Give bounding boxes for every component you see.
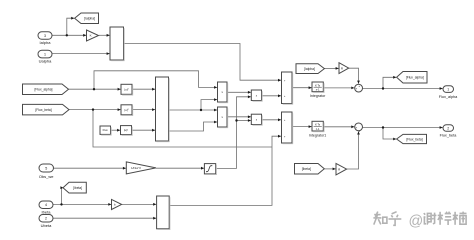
svg-text:1/Flux^2: 1/Flux^2 [131, 166, 141, 170]
shadow flux [101, 127, 111, 135]
junction dot riser branch [235, 119, 237, 121]
goto tag [Ibeta] [63, 182, 86, 193]
svg-text:z-1: z-1 [316, 88, 320, 92]
wire riser branch to xsq2 in2 [237, 120, 251, 122]
arrowhead into mux2 in3 [152, 129, 155, 132]
svg-text:z-1: z-1 [316, 127, 320, 131]
arrowhead into product2 in2 [214, 121, 217, 124]
arrowhead into outport1 [440, 87, 443, 90]
shadow usq1 [122, 86, 133, 96]
arrowhead into usq3 [117, 129, 120, 132]
sum Add1 [282, 72, 293, 104]
arrowhead into product2 in1 [214, 109, 217, 112]
wire Ualpha to mux1 in2 [52, 53, 110, 55]
svg-text:2: 2 [45, 217, 47, 221]
svg-text:+: + [356, 87, 358, 91]
wire Ialpha from-tag to gain2 [324, 67, 338, 69]
wire Flux_alpha tag to usq1 [69, 88, 121, 90]
arrowhead into gain1 [83, 34, 86, 37]
gain K4 [336, 163, 347, 175]
svg-text:Ialpha: Ialpha [40, 40, 52, 45]
arrowhead into sumcircle2 bottom [357, 132, 360, 135]
svg-text:Integrator1: Integrator1 [309, 134, 326, 138]
watermark char zhi [373, 212, 387, 225]
goto tag [Ialpha] top-left [75, 13, 99, 24]
saturation block [204, 164, 215, 174]
junction dot Flux_alpha branch [93, 88, 95, 90]
junction dot Ibeta branch [60, 203, 62, 205]
arrowhead into sumcircle1 top [357, 81, 360, 84]
wire integrator1 to sumcircle2 [323, 126, 354, 128]
arrowhead into goto Flux_alpha [393, 76, 396, 79]
from tag [Flux_alpha] [23, 84, 69, 95]
wire xsq2 to sum2 in1 [262, 119, 282, 121]
shadow integrator [313, 83, 324, 92]
arrowhead into xsq1 in2 [248, 95, 251, 98]
math function u^2 block 1 [121, 84, 132, 94]
arrowhead into product1 in1 [214, 86, 217, 89]
outport 1 [443, 86, 454, 93]
shadow xsq1 [253, 91, 263, 101]
arrowhead into wide gain [123, 167, 126, 170]
wire product2 to xsq2 [227, 116, 251, 118]
arrowhead into mux1 in1 [107, 34, 110, 37]
watermark char zi [438, 212, 452, 225]
wire usq1 to mux2 in1 [132, 88, 155, 90]
wire mux2 outA to product2 in1 [169, 109, 218, 111]
wire sum2 to integrator1 [292, 126, 312, 128]
wire sumcircle1 to outport1 [363, 88, 443, 90]
arrowhead into mux2 in2 [152, 108, 155, 111]
outport 2 [443, 125, 454, 132]
svg-text:Ubeta: Ubeta [41, 223, 52, 228]
arrowhead into mux3 in1 [153, 203, 156, 206]
svg-text:Flux_alpha: Flux_alpha [439, 95, 458, 99]
wire Ibeta from-tag to gain4 [324, 168, 335, 170]
gain K1 [87, 30, 99, 41]
wire branch to goto Ialpha [67, 18, 74, 35]
svg-text:[Flux_alpha]: [Flux_alpha] [35, 88, 53, 92]
arrowhead into sum1 in2 [278, 94, 281, 97]
junction dot outport2 branch [382, 126, 384, 128]
sum Add2 [282, 112, 293, 143]
svg-text:K Ts: K Ts [315, 123, 321, 127]
integrator block [312, 82, 323, 92]
from tag [Ialpha] right [296, 64, 324, 74]
junction dot mux2 outA branch [200, 109, 202, 111]
wire sum1 to integrator [292, 87, 312, 89]
arrowhead into product1 in2 [214, 98, 217, 101]
mux Mux1 [110, 27, 124, 60]
arrowhead into integrator [309, 86, 312, 89]
wire branch to goto Flux_beta [383, 128, 396, 140]
wire branch Flux_alpha to product1 in1 [94, 71, 217, 89]
mux Mux2 [156, 77, 169, 141]
wire wide gain to saturation [156, 167, 204, 169]
shadow usq2 [122, 106, 133, 116]
wire Flux const to usq3 [111, 129, 121, 131]
svg-text:[Ibeta]: [Ibeta] [302, 167, 311, 171]
arrowhead into usq2 [118, 108, 121, 111]
watermark char nan [453, 212, 467, 225]
svg-text:[Flux_beta]: [Flux_beta] [35, 108, 51, 112]
inport 2 Ubeta [39, 215, 53, 223]
arrowhead into mux3 in2 [153, 217, 156, 220]
svg-text:5: 5 [45, 166, 47, 170]
wire gain4 to sumcircle2 bottom [347, 132, 359, 170]
from tag [Ibeta] right [295, 164, 325, 175]
svg-text:[Ialpha]: [Ialpha] [84, 17, 95, 21]
svg-text:R: R [341, 66, 343, 70]
svg-text:Obs_we: Obs_we [39, 174, 54, 179]
wire Flux_beta tag to usq2 [69, 109, 121, 111]
inport 5 Obs_we [39, 164, 54, 172]
shadow mux2 [157, 78, 170, 142]
shadow sum1 [283, 73, 293, 104]
wire branch up to product1 in2 [201, 100, 217, 110]
wire integrator to sumcircle1 [323, 87, 354, 89]
shadow sum2 [283, 113, 293, 144]
sum circle 1 [355, 84, 363, 92]
arrowhead into goto Ibeta [60, 186, 63, 189]
svg-text:2: 2 [447, 126, 449, 130]
wire branch to goto Ibeta [62, 188, 63, 205]
wire usq3 to mux2 in3 [132, 129, 156, 131]
svg-text:Ualpha: Ualpha [39, 59, 52, 64]
wire branch Flux_beta down loop [93, 110, 272, 147]
svg-text:+: + [358, 129, 360, 133]
arrowhead into integrator1 [309, 125, 312, 128]
wire Ibeta to gain3 [53, 203, 111, 205]
svg-text:[Ialpha]: [Ialpha] [304, 67, 315, 71]
shadow product2 [219, 108, 228, 128]
gain K3 [112, 199, 122, 209]
svg-text:K: K [90, 34, 92, 38]
svg-text:[Flux_beta]: [Flux_beta] [406, 138, 422, 142]
wire mux3 to sum2 in2 [169, 136, 281, 205]
svg-text:[Ibeta]: [Ibeta] [73, 186, 82, 190]
watermark [373, 212, 466, 230]
svg-text:Flux_beta: Flux_beta [440, 134, 458, 138]
svg-text:[Flux_alpha]: [Flux_alpha] [406, 76, 424, 80]
arrowhead into sum1 in1 [278, 79, 281, 82]
wire Obs_we to wide gain [54, 167, 126, 169]
mux Mux3 [157, 196, 170, 229]
shadow usq3 [122, 127, 133, 136]
watermark char hu [389, 212, 402, 226]
shadow mux1 [111, 28, 124, 61]
product square 2 [251, 114, 261, 124]
svg-text:Ibeta: Ibeta [42, 209, 52, 214]
arrowhead into usq1 [118, 88, 121, 91]
arrowhead into sum2 in2 [278, 135, 281, 138]
inport 4 Ibeta [39, 201, 53, 209]
wire gain2 to sumcircle1 top [349, 68, 359, 83]
shadow mux3 [158, 197, 170, 229]
svg-text:+: + [356, 126, 358, 130]
product Product2 [218, 107, 228, 127]
integrator1 block [312, 121, 323, 131]
arrowhead into gain3 [108, 203, 111, 206]
svg-text:3: 3 [44, 34, 46, 38]
arrowhead into sumcircle1 left [351, 87, 354, 90]
wire branch to goto Flux_alpha [383, 77, 396, 88]
shadow saturation [206, 165, 217, 175]
wire mux2 outB to product2 in2 [169, 122, 218, 131]
wire sumcircle2 to outport2 [363, 127, 443, 129]
gain K2 [339, 63, 349, 74]
junction dot Flux_beta branch [92, 108, 94, 110]
watermark char xie [424, 213, 437, 225]
arrowhead into saturation [201, 167, 204, 170]
shadow xsq2 [253, 115, 263, 125]
wire saturation riser to xsq1 in2 [216, 97, 251, 169]
wire usq2 to mux2 in2 [132, 109, 155, 111]
wire mux1 to sum1 in1 [124, 44, 281, 81]
saturation icon [206, 166, 212, 172]
svg-text:K Ts: K Ts [315, 83, 321, 87]
shadow integrator1 [313, 123, 324, 132]
arrowhead into gain4 [333, 168, 336, 171]
inport 3 Ialpha [38, 32, 52, 40]
wire product1 to xsq1 [227, 91, 251, 93]
product square 1 [251, 90, 261, 101]
wire Ialpha to gain [52, 34, 86, 36]
math function u^2 block 3 [121, 126, 132, 135]
sum circle 2 [355, 123, 363, 131]
svg-text:@: @ [409, 213, 424, 229]
arrowhead into xsq1 in1 [248, 91, 251, 94]
arrowhead into goto Ialpha [71, 17, 74, 20]
junction dot Ialpha branch [66, 34, 68, 36]
wire gain to mux1 in1 [99, 34, 110, 36]
svg-text:R: R [338, 167, 340, 171]
arrowhead into mux1 in2 [107, 52, 110, 55]
arrowhead into mux2 in1 [152, 88, 155, 91]
arrowhead into xsq2 in2 [248, 119, 251, 122]
arrowhead into outport2 [440, 126, 443, 129]
constant Flux [100, 126, 111, 134]
svg-text:1: 1 [44, 52, 46, 56]
inport 1 Ualpha [38, 50, 52, 58]
arrowhead into sumcircle2 left [351, 125, 354, 128]
gain 1/Flux^2 [126, 162, 156, 174]
junction dot outport1 branch [382, 87, 384, 89]
wire gain3 to mux3 in1 [122, 203, 157, 205]
from tag [Flux_beta] [23, 104, 70, 115]
arrowhead into goto Flux_beta [393, 138, 396, 141]
svg-text:Flux: Flux [103, 128, 109, 132]
wire xsq1 to sum1 in2 [262, 95, 282, 97]
arrowhead into sum2 in1 [278, 118, 281, 121]
product Product1 [218, 82, 228, 102]
svg-text:4: 4 [45, 203, 47, 207]
wire Ubeta to mux3 in2 [53, 217, 156, 219]
svg-text:Integrator: Integrator [310, 94, 326, 98]
math function u^2 block 2 [121, 105, 132, 115]
svg-text:+: + [358, 84, 360, 88]
goto tag [Flux_beta] [397, 134, 427, 143]
arrowhead into xsq2 in1 [248, 115, 251, 118]
arrowhead into gain2 [336, 67, 339, 70]
svg-text:1: 1 [447, 87, 449, 91]
goto tag [Flux_alpha] [397, 72, 427, 84]
shadow product1 [219, 83, 228, 103]
